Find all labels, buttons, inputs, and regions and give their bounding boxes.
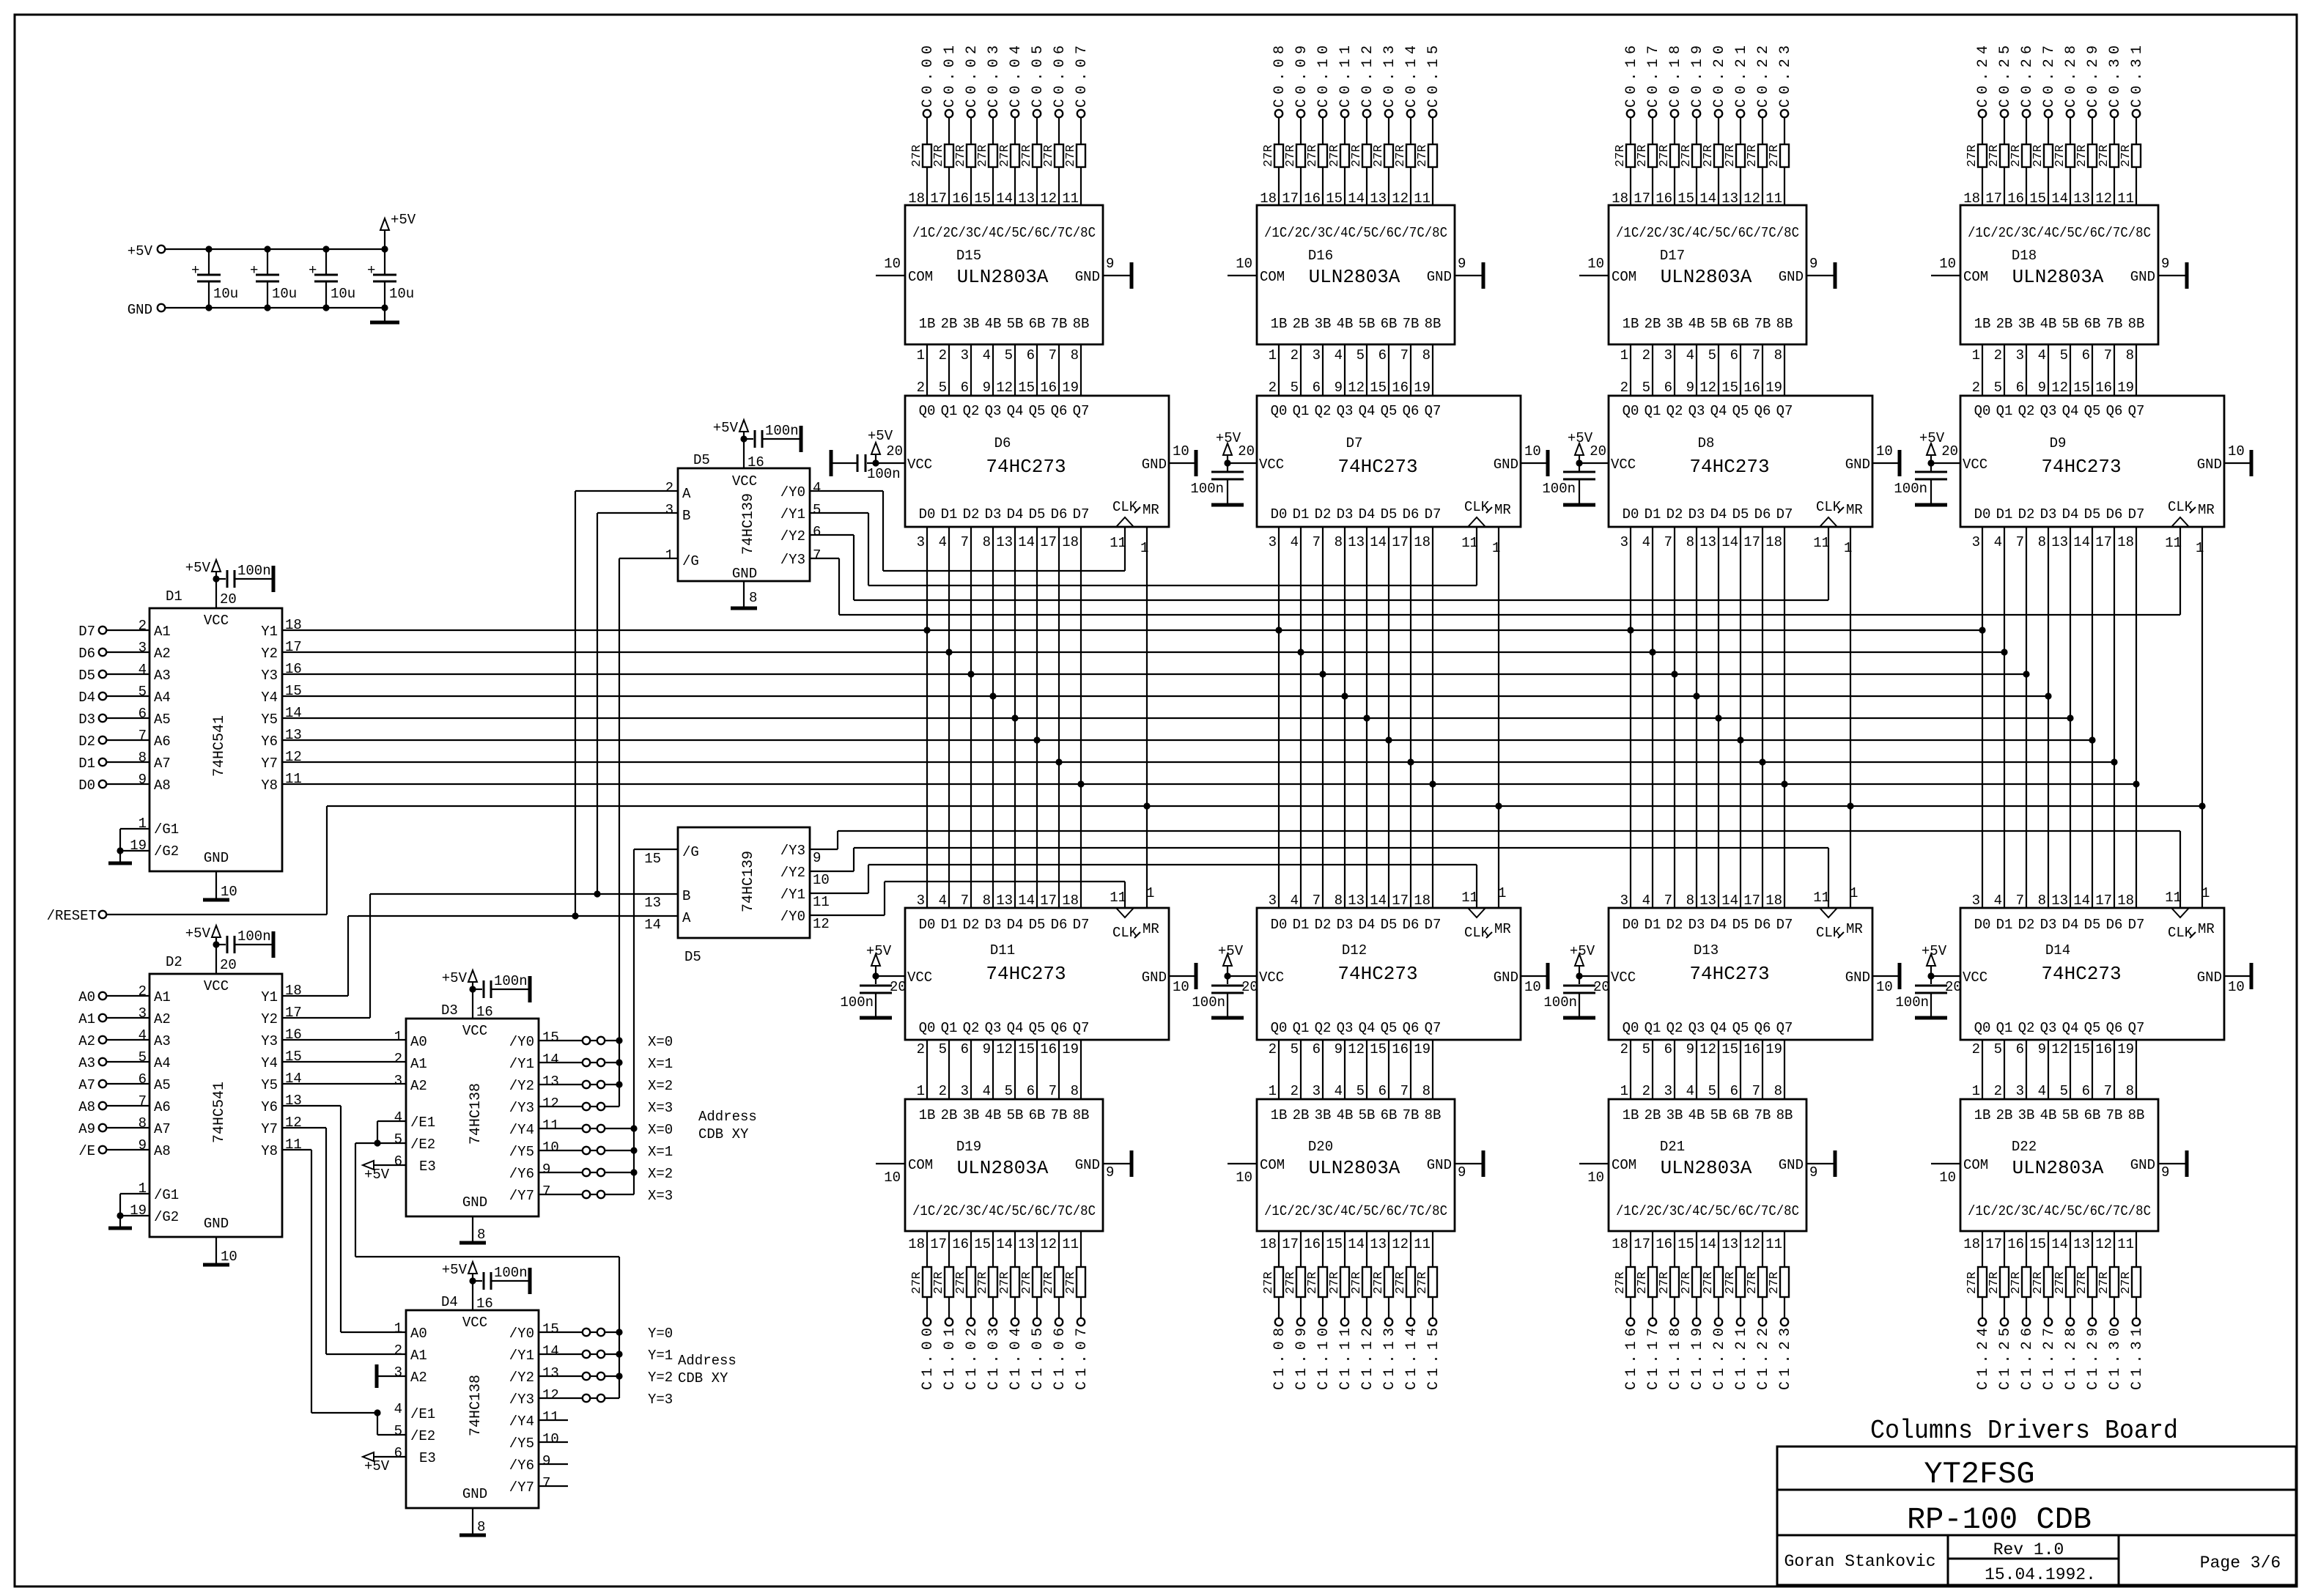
pin numbers above D14 [1972,885,2210,909]
svg-text:/1C/2C/3C/4C/5C/6C/7C/8C: /1C/2C/3C/4C/5C/6C/7C/8C [1616,225,1799,241]
svg-text:16: 16 [748,454,764,470]
connector pin C0.25 [1997,45,2014,117]
svg-text:4: 4 [939,534,947,550]
svg-text:/1C/2C/3C/4C/5C/6C/7C/8C: /1C/2C/3C/4C/5C/6C/7C/8C [1264,225,1447,241]
svg-text:A7: A7 [78,1077,95,1093]
svg-text:27R: 27R [1020,1271,1034,1294]
svg-text:9: 9 [2038,380,2046,396]
svg-text:/1C/2C/3C/4C/5C/6C/7C/8C: /1C/2C/3C/4C/5C/6C/7C/8C [912,225,1096,241]
svg-text:MR: MR [2198,921,2215,937]
svg-text:/E2: /E2 [410,1137,435,1153]
resistor 27R column C1.18 [1655,1231,1679,1318]
connector pin C1.17 [1645,1318,1662,1390]
resistor 27R column C0.26 [2007,117,2031,207]
svg-text:5: 5 [2060,347,2068,363]
svg-text:4: 4 [1686,347,1694,363]
svg-text:8B: 8B [2128,1107,2145,1123]
connector pin C1.10 [1315,1318,1332,1390]
svg-text:15: 15 [1721,1041,1738,1057]
resistor 27R column C1.02 [952,1231,975,1318]
svg-text:11: 11 [1110,535,1126,551]
wires D11 to D19 [917,1040,1081,1099]
svg-text:27R: 27R [954,1271,968,1294]
resistor 27R column C1.07 [1062,1231,1085,1318]
svg-text:D13: D13 [1694,942,1719,958]
wire /Y3 of D5 top half to CLK of D9 [810,527,2180,615]
svg-text:VCC: VCC [1963,969,1987,986]
svg-text:74HC273: 74HC273 [1337,963,1417,985]
IC D5 74HC139 decoder top half [665,452,822,582]
svg-text:6B: 6B [1029,316,1046,332]
svg-text:100n: 100n [494,973,528,989]
svg-text:Y6: Y6 [261,734,278,750]
svg-text:27R: 27R [1724,144,1738,167]
svg-text:D5: D5 [1029,506,1046,522]
wire /Y1 of D5 top half to CLK of D7 [810,513,1477,585]
svg-text:ULN2803A: ULN2803A [1661,1157,1752,1179]
svg-text:8B: 8B [2128,316,2145,332]
svg-text:VCC: VCC [1611,457,1636,473]
svg-text:A4: A4 [154,1055,171,1071]
svg-text:D15: D15 [956,248,981,264]
svg-text:12: 12 [996,380,1013,396]
svg-text:27R: 27R [1768,144,1782,167]
svg-text:8: 8 [1686,893,1694,909]
svg-text:27R: 27R [1306,1271,1320,1294]
svg-text:6B: 6B [1381,1107,1398,1123]
svg-text:100n: 100n [765,423,799,439]
svg-text:GND: GND [1142,969,1167,986]
svg-text:17: 17 [1634,1236,1650,1252]
connector pin C1.06 [1052,1318,1068,1390]
svg-text:27R: 27R [1064,144,1078,167]
wires data inputs D0-D7 column 3 [1631,527,1784,908]
svg-text:8B: 8B [1073,316,1090,332]
svg-text:3: 3 [1664,1083,1672,1099]
svg-text:7: 7 [2104,347,2112,363]
svg-text:27R: 27R [1702,1271,1716,1294]
connector pin A9 address input [78,1115,150,1137]
svg-text:Y6: Y6 [261,1099,278,1115]
svg-text:19: 19 [1062,380,1079,396]
svg-text:Q3: Q3 [1688,403,1705,419]
connector pin C0.28 [2063,45,2080,117]
svg-text:27R: 27R [1768,1271,1782,1294]
IC D2 74HC541 buffer [150,954,282,1237]
connector pin C1.09 [1293,1318,1310,1390]
svg-text:6: 6 [2082,347,2090,363]
resistor 27R column C0.12 [1348,117,1371,207]
wire MR column 4 [2201,527,2203,908]
svg-text:2B: 2B [1645,316,1661,332]
svg-text:GND: GND [732,566,757,582]
svg-text:16: 16 [1743,380,1760,396]
svg-text:4: 4 [139,1027,147,1043]
svg-text:D5: D5 [1029,917,1046,933]
stub COM pin 10 of D18 [1931,256,1960,276]
svg-text:8B: 8B [1425,1107,1442,1123]
connector pin C0.22 [1755,45,1772,117]
svg-text:9: 9 [1458,256,1466,272]
junction dots cap C3 [322,245,329,311]
svg-text:Q1: Q1 [1996,1020,2013,1036]
svg-text:D1: D1 [1293,506,1310,522]
svg-text:15: 15 [1326,1236,1343,1252]
svg-text:9: 9 [2038,1041,2046,1057]
resistor 27R column C1.06 [1040,1231,1063,1318]
svg-text:3B: 3B [1315,1107,1332,1123]
svg-text:15.04.1992.: 15.04.1992. [1985,1565,2096,1584]
connector pin /E address input [78,1137,150,1159]
power +5V arrow E3 of D3 [363,1161,406,1183]
wire data bus line Y4 (D4) [282,683,2048,699]
svg-text:/G2: /G2 [154,843,179,860]
svg-text:4: 4 [1686,1083,1694,1099]
svg-text:12: 12 [1699,1041,1716,1057]
svg-text:8: 8 [139,1115,147,1131]
stub COM pin 10 of D19 [876,1164,905,1186]
svg-text:10: 10 [2228,443,2245,459]
svg-text:13: 13 [644,895,661,911]
svg-text:27R: 27R [1746,1271,1760,1294]
svg-text:Q2: Q2 [1315,403,1332,419]
ground pin 10 of D8 [1872,443,1900,476]
svg-text:Q3: Q3 [1688,1020,1705,1036]
connector pin D3 data input [78,706,150,728]
svg-text:19: 19 [1062,1041,1079,1057]
svg-text:A6: A6 [154,1099,171,1115]
connector pin C1.31 [2129,1318,2146,1390]
svg-text:4: 4 [1291,534,1299,550]
resistor 27R column C0.01 [930,117,953,207]
svg-text:15: 15 [644,851,661,867]
svg-text:13: 13 [285,727,302,743]
svg-text:27R: 27R [1372,144,1386,167]
svg-text:15: 15 [542,1030,559,1046]
svg-text:/Y3: /Y3 [509,1100,534,1116]
resistor 27R column C1.21 [1721,1231,1745,1318]
svg-text:5: 5 [1356,1083,1365,1099]
svg-text:10: 10 [813,872,830,888]
svg-text:7: 7 [2016,534,2024,550]
svg-text:4: 4 [139,662,147,678]
svg-text:9: 9 [1686,380,1694,396]
svg-text:3B: 3B [963,316,980,332]
resistor 27R column C0.23 [1765,117,1789,207]
svg-text:5: 5 [1994,1041,2002,1057]
svg-text:6: 6 [961,380,969,396]
svg-text:GND: GND [1427,269,1452,285]
resistor 27R column C1.08 [1260,1231,1283,1318]
resistor 27R column C1.26 [2007,1231,2031,1318]
svg-text:D0: D0 [1271,917,1288,933]
svg-text:4: 4 [2038,347,2046,363]
svg-text:Q0: Q0 [1271,403,1288,419]
svg-text:12: 12 [542,1096,559,1112]
wire /G of D5 top half to X jumpers [619,558,678,1107]
svg-text:D6: D6 [1403,506,1420,522]
wires D16 to D7 [1269,344,1433,396]
svg-text:3: 3 [917,534,925,550]
svg-text:+5V: +5V [391,212,416,228]
svg-text:1: 1 [1498,885,1506,901]
svg-text:ULN2803A: ULN2803A [2012,1157,2104,1179]
svg-text:D0: D0 [919,917,936,933]
svg-text:100n: 100n [840,994,874,1011]
label YT2FSG [1924,1457,2034,1492]
svg-text:14: 14 [1721,534,1738,550]
IC D22 ULN2803A driver [1960,1099,2158,1231]
svg-text:16: 16 [1040,380,1057,396]
svg-text:4B: 4B [985,1107,1002,1123]
svg-text:1: 1 [1269,1083,1277,1099]
svg-text:B: B [682,508,690,524]
svg-text:13: 13 [2051,534,2068,550]
svg-text:27R: 27R [1284,1271,1298,1294]
svg-text:27R: 27R [1658,144,1672,167]
svg-text:7: 7 [813,547,821,564]
svg-text:3: 3 [2016,347,2024,363]
svg-text:74HC139: 74HC139 [740,493,757,555]
svg-text:Q5: Q5 [2084,1020,2101,1036]
connector pin C1.25 [1997,1318,2014,1390]
svg-text:Q5: Q5 [1029,403,1046,419]
svg-text:6: 6 [2016,1041,2024,1057]
svg-text:/E1: /E1 [410,1115,435,1131]
svg-text:3: 3 [917,893,925,909]
svg-text:5B: 5B [1710,316,1727,332]
title block frame [1777,1447,2296,1585]
svg-text:8: 8 [983,534,991,550]
svg-text:1: 1 [665,547,673,564]
resistor 27R column C0.25 [1985,117,2009,207]
svg-text:18: 18 [1260,1236,1277,1252]
svg-text:Q1: Q1 [941,1020,958,1036]
svg-text:2: 2 [139,618,147,634]
svg-text:14: 14 [1370,893,1387,909]
svg-text:4: 4 [1642,534,1650,550]
IC D15 ULN2803A driver [905,205,1103,344]
svg-text:Address: Address [698,1109,757,1125]
ground pin 9 of D18 [2158,256,2187,289]
jumper links X group 2 of D3 [539,1122,673,1204]
svg-text:CDB XY: CDB XY [698,1126,749,1142]
svg-text:COM: COM [908,269,933,285]
IC D19 ULN2803A driver [905,1099,1103,1231]
connector pin C0.24 [1975,45,1992,117]
svg-text:2: 2 [394,1051,402,1067]
svg-text:1: 1 [917,1083,925,1099]
svg-text:3: 3 [665,502,673,518]
ground pin 10 of D1 [203,871,237,900]
svg-text:10: 10 [542,1431,559,1447]
svg-text:10: 10 [1524,979,1541,995]
svg-text:+5V: +5V [185,926,211,942]
svg-text:15: 15 [1721,380,1738,396]
svg-text:GND: GND [1494,457,1518,473]
svg-text:7B: 7B [1754,316,1771,332]
svg-text:13: 13 [1348,534,1365,550]
svg-text:4: 4 [394,1401,402,1417]
svg-text:D2: D2 [1315,506,1332,522]
connector pin C0.26 [2019,45,2036,117]
svg-text:1: 1 [1850,885,1858,901]
svg-text:27R: 27R [1372,1271,1386,1294]
svg-text:Q0: Q0 [1623,403,1639,419]
svg-text:12: 12 [2051,1041,2068,1057]
svg-text:7: 7 [1313,534,1321,550]
svg-text:14: 14 [1018,534,1035,550]
power +5V and capacitor 100n for D8 [1542,430,1609,505]
svg-text:4: 4 [1335,1083,1343,1099]
connector pin C0.07 [1074,45,1090,117]
svg-text:D22: D22 [2012,1139,2037,1155]
ground pin 9 of D15 [1103,256,1132,289]
connector pin A0 address input [78,983,150,1005]
svg-text:D2: D2 [963,506,980,522]
svg-text:17: 17 [1392,893,1409,909]
svg-text:27R: 27R [1636,144,1650,167]
junction dots cap C1 [205,245,212,311]
ground pin 10 of D12 [1521,963,1548,995]
svg-text:/Y0: /Y0 [509,1034,534,1050]
svg-text:6: 6 [1664,380,1672,396]
wire GND rail [165,307,385,309]
svg-text:8: 8 [1071,347,1079,363]
power +5V arrow [380,212,416,249]
svg-text:Y8: Y8 [261,777,278,794]
svg-text:7: 7 [1752,347,1760,363]
svg-text:5B: 5B [1710,1107,1727,1123]
svg-text:D5: D5 [1381,917,1398,933]
svg-text:11: 11 [542,1117,559,1134]
svg-text:D3: D3 [985,917,1002,933]
svg-text:14: 14 [2073,893,2090,909]
pin numbers above D11 [917,885,1155,909]
svg-text:11: 11 [1414,1236,1431,1252]
connector pin C0.21 [1733,45,1750,117]
svg-text:2: 2 [1269,1041,1277,1057]
wire select A riser to D5 top half [572,491,678,920]
IC D3 74HC138 decoder [394,1002,559,1216]
connector pin GND [128,302,165,318]
stub COM pin 10 of D17 [1579,256,1609,276]
svg-text:11: 11 [2165,890,2182,906]
svg-text:A4: A4 [154,690,171,706]
svg-text:Q2: Q2 [1666,1020,1683,1036]
svg-text:16: 16 [1040,1041,1057,1057]
connector pin C1.23 [1777,1318,1794,1390]
svg-text:+5V: +5V [442,970,468,986]
svg-text:4B: 4B [1337,316,1354,332]
svg-text:3: 3 [1269,534,1277,550]
svg-text:18: 18 [285,617,302,633]
svg-text:Q4: Q4 [1007,403,1024,419]
svg-text:D4: D4 [1359,917,1376,933]
svg-text:D7: D7 [1073,506,1090,522]
svg-text:2B: 2B [1293,316,1310,332]
svg-text:74HC273: 74HC273 [1689,456,1769,478]
svg-text:17: 17 [1040,893,1057,909]
svg-text:D2: D2 [1666,506,1683,522]
svg-text:/Y0: /Y0 [780,909,805,925]
svg-text:3: 3 [1620,534,1628,550]
svg-text:74HC541: 74HC541 [211,715,228,777]
svg-text:10u: 10u [389,286,414,302]
svg-text:A2: A2 [78,1033,95,1049]
svg-text:COM: COM [908,1157,933,1173]
svg-text:+5V: +5V [713,420,739,436]
svg-text:Q0: Q0 [919,1020,936,1036]
svg-text:16: 16 [285,661,302,677]
svg-text:/Y3: /Y3 [780,843,805,859]
svg-text:A1: A1 [410,1056,427,1072]
svg-text:GND: GND [1494,969,1518,986]
svg-text:A6: A6 [154,734,171,750]
svg-text:13: 13 [2051,893,2068,909]
svg-text:CLK: CLK [1816,925,1842,941]
connector pin C1.21 [1733,1318,1750,1390]
svg-text:/Y0: /Y0 [780,484,805,500]
power +5V and capacitor 100n for D1 [185,560,273,608]
svg-text:8: 8 [1774,347,1782,363]
svg-text:2: 2 [917,380,925,396]
label 15.04.1992. [1985,1565,2096,1584]
svg-text:3B: 3B [1666,316,1683,332]
svg-text:14: 14 [1721,893,1738,909]
wire MR column 2 [1498,527,1499,908]
svg-text:2B: 2B [941,316,958,332]
svg-text:7: 7 [1400,1083,1409,1099]
capacitor C4 10u [367,249,414,308]
svg-text:+5V: +5V [1922,943,1947,959]
svg-text:D0: D0 [1974,917,1991,933]
svg-text:D0: D0 [919,506,936,522]
svg-text:A1: A1 [78,1011,95,1027]
connector pin C0.11 [1337,45,1354,117]
svg-text:16: 16 [1392,380,1409,396]
connector pin C0.14 [1403,45,1420,117]
svg-text:RP-100 CDB: RP-100 CDB [1907,1502,2092,1537]
svg-text:27R: 27R [1262,144,1276,167]
svg-text:A2: A2 [154,646,171,662]
svg-text:15: 15 [2073,1041,2090,1057]
jumper links Y group of D4 [539,1326,673,1408]
connector pin C1.28 [2063,1318,2080,1390]
svg-text:20: 20 [1241,979,1258,995]
svg-text:100n: 100n [1192,994,1225,1011]
svg-text:Y1: Y1 [261,624,278,640]
svg-text:2: 2 [665,480,673,496]
wire /Y2 of D5 bottom half to CLK of D13 [810,848,1828,908]
svg-text:A2: A2 [410,1078,427,1094]
svg-text:16: 16 [1304,1236,1321,1252]
svg-text:Y4: Y4 [261,1055,278,1071]
svg-text:D16: D16 [1308,248,1333,264]
svg-text:4: 4 [1335,347,1343,363]
svg-text:GND: GND [2130,269,2155,285]
svg-text:1: 1 [394,1320,402,1337]
svg-text:VCC: VCC [1611,969,1636,986]
wire Y7 of D2 to D4 A1 [282,1128,406,1354]
svg-text:Columns Drivers Board: Columns Drivers Board [1870,1416,2178,1446]
svg-text:14: 14 [1370,534,1387,550]
svg-text:1: 1 [1972,1083,1980,1099]
resistor 27R column C0.24 [1963,117,1987,207]
svg-text:3: 3 [394,1073,402,1089]
svg-text:27R: 27R [1614,1271,1628,1294]
svg-text:Q7: Q7 [1073,403,1090,419]
